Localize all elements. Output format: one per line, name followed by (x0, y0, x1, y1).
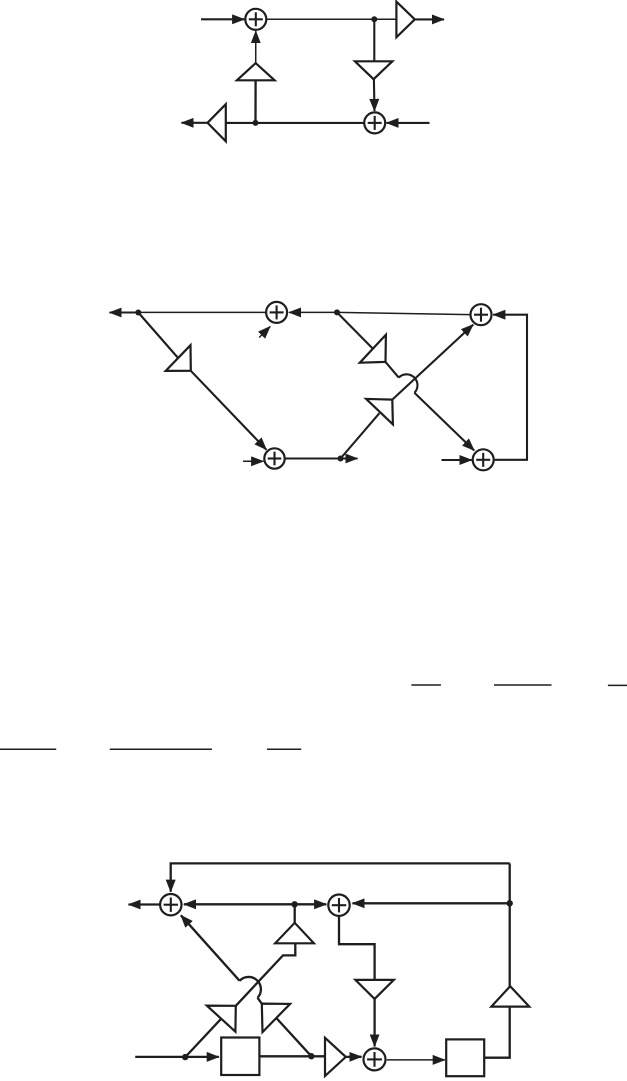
wire hop arrow into SA (181, 915, 240, 981)
wire G4 up arrow into S1 (255, 31, 257, 63)
summing node SBL (264, 448, 284, 468)
wire feedback right side into STR (493, 315, 527, 460)
wire NW diagonal N4 to G13 (276, 1018, 311, 1056)
gain triangle G6 (SE) (360, 335, 386, 363)
wire small input arrow into SBL (243, 460, 263, 462)
wire G2 down arrow into S2 (373, 79, 376, 111)
gain triangle G3 (left) (208, 104, 226, 141)
junction dot J2 (253, 120, 259, 126)
fraction bar (411, 684, 441, 686)
gain triangle G4 (up) (237, 63, 275, 80)
wire feedback top line with arrow into SA top (171, 863, 510, 891)
summing node S2 (364, 112, 385, 133)
summing node SBR (473, 449, 494, 470)
wire bottom input arrow into box1 (135, 1056, 219, 1058)
fraction bar (0, 748, 56, 750)
hop arc over crossing (399, 374, 418, 393)
wire G13 tip to hop (258, 998, 262, 1004)
wire N1 arrow into SB (295, 903, 327, 905)
junction dot N3 (182, 1054, 188, 1060)
junction dot N2 (507, 900, 513, 906)
summing node SC (364, 1048, 386, 1070)
junction dot M1 (135, 310, 141, 316)
junction dot N1 (291, 901, 297, 907)
fraction bar (267, 748, 301, 750)
summing node SB (328, 895, 349, 916)
wire G9 down arrow into SC (373, 999, 375, 1047)
wire output arrow left from SA (129, 903, 160, 905)
wire SC arrow into box2 (387, 1059, 445, 1061)
summing node STL (266, 302, 287, 323)
junction dot J1 (371, 16, 377, 22)
gain triangle G1 (396, 2, 414, 38)
junction dot N4 (308, 1053, 314, 1059)
wire M2 arrow into STL (289, 311, 337, 313)
wire output arrow left (182, 122, 208, 124)
wire G10 arrow into SC (346, 1056, 362, 1058)
summing node SA (160, 894, 181, 915)
wire M1 to STL (138, 311, 265, 313)
wire diagonal M2 to G6 (337, 312, 373, 348)
fraction bar (110, 748, 212, 750)
wire small diagonal arrow into STL (259, 327, 270, 338)
wire SBL to M3 (285, 457, 341, 459)
wire right vertical from box2 up (484, 863, 509, 1057)
hop arc over crossing (240, 977, 261, 998)
wire short output arrow from M3 (341, 457, 358, 459)
gain triangle G13 (NW) (262, 1004, 290, 1033)
wire G12 up to N1 (294, 904, 296, 923)
wire G5 arrow into SBL (191, 371, 267, 450)
delay box2 (446, 1039, 484, 1076)
junction dot M3 (338, 456, 344, 462)
wire S2 left to G3 (226, 122, 364, 124)
wire small input arrow into SBR (442, 459, 472, 461)
gain triangle G9 (down) (355, 980, 393, 999)
wire NE diagonal N3 to G11 (185, 1019, 221, 1057)
wire diagonal M3 to G7 (341, 413, 380, 458)
gain triangle G5 (SE) (166, 345, 191, 371)
wire output arrow right (415, 18, 444, 20)
wire S1 to node J1 (266, 18, 396, 20)
junction dot M2 (334, 309, 340, 315)
wire SB down jog to G9 (339, 916, 375, 980)
gain triangle G2 (down) (355, 61, 393, 79)
gain triangle G11 (NE) (207, 1006, 236, 1032)
wire hop arrow into SBR (414, 393, 474, 451)
wire diagonal M1 to G5 (138, 313, 178, 359)
wire N2 arrow into SB (353, 902, 510, 904)
gain triangle G12 (up) (275, 923, 314, 944)
wire box1 to N4 and G10 (259, 1055, 325, 1057)
summing node S1 (245, 9, 266, 30)
gain triangle G10 (right) (325, 1038, 346, 1076)
fraction bar (494, 684, 552, 686)
wire input arrow right into S2 (387, 122, 430, 124)
wire input arrow into S1 (201, 18, 244, 20)
delay box1 (221, 1038, 259, 1076)
wire J2 up to G4 (254, 80, 256, 123)
wire G6 to hop (386, 362, 399, 378)
wire N1 arrow into SA (184, 903, 295, 905)
wire output arrow left (110, 311, 139, 313)
gain triangle G8 (up) (491, 986, 529, 1006)
summing node STR (471, 304, 492, 325)
wire G7 arrow into STR crossing unbroken (392, 325, 473, 400)
wire G11 jog up into G12 (236, 943, 295, 1006)
wire J1 down to G2 (373, 19, 375, 61)
fraction bar (608, 684, 627, 686)
gain triangle G7 (NE) (366, 399, 393, 425)
wire M2 to STR (337, 312, 470, 314)
